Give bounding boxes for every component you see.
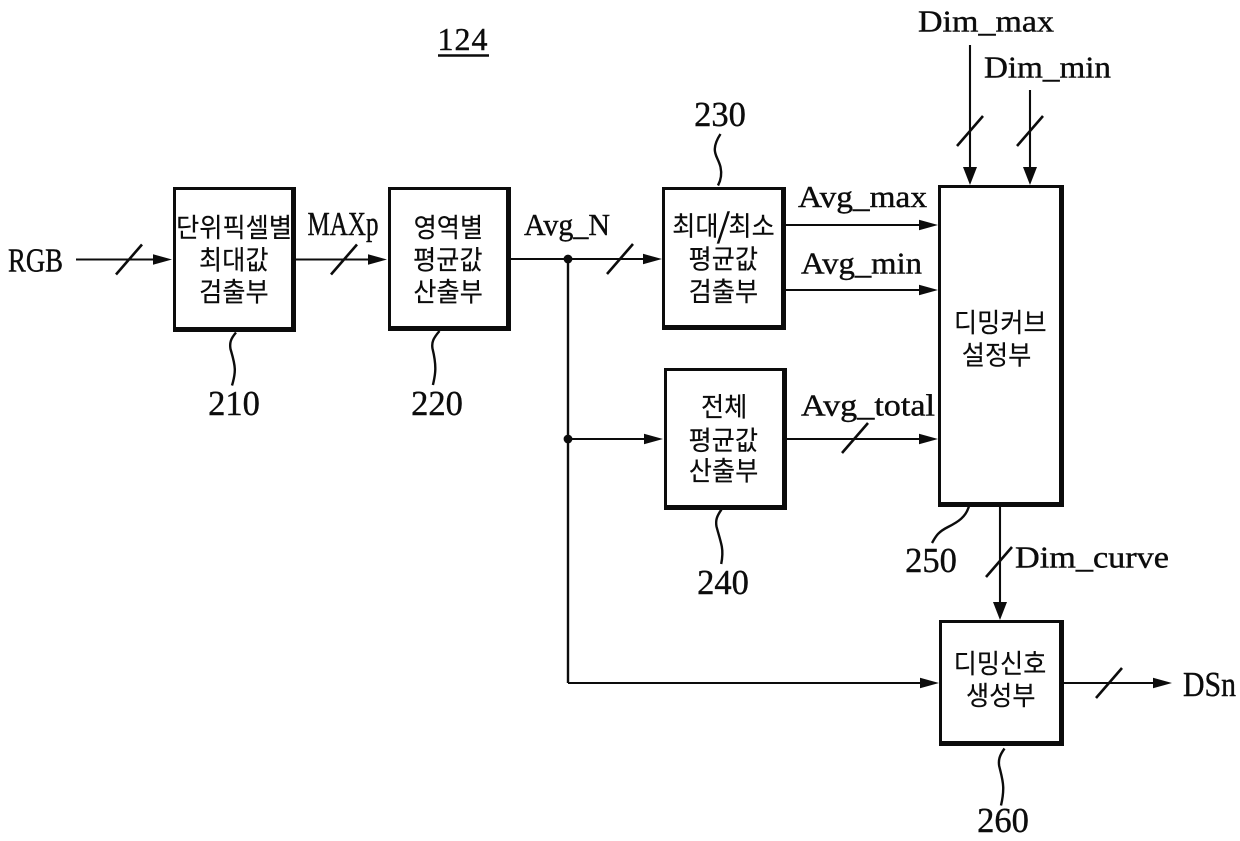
wire branch to block 260 xyxy=(568,678,939,688)
wire Avg_total block240 to block250 with bus slash xyxy=(786,423,938,453)
reference numeral 250 xyxy=(905,542,957,580)
wire RGB to block 210 with bus slash xyxy=(76,245,172,275)
leader squiggle for 260 xyxy=(999,749,1005,806)
reference numeral 240 xyxy=(697,564,749,602)
node Dim_max label xyxy=(918,4,1055,39)
svg-text:240: 240 xyxy=(697,564,749,602)
leader squiggle for 230 xyxy=(715,134,721,186)
svg-text:230: 230 xyxy=(694,96,746,134)
svg-text:Avg_min: Avg_min xyxy=(801,246,923,281)
svg-text:Dim_min: Dim_min xyxy=(984,50,1112,85)
node Avg_total label xyxy=(801,388,935,423)
leader squiggle for 240 xyxy=(716,510,722,565)
svg-text:MAXp: MAXp xyxy=(308,206,379,243)
svg-text:Avg_N: Avg_N xyxy=(524,207,610,242)
svg-text:Avg_max: Avg_max xyxy=(798,179,928,214)
reference numeral 230 xyxy=(694,96,746,134)
reference numeral 260 xyxy=(977,802,1029,840)
wire block220 to block230 with junction and bus slash xyxy=(511,244,662,274)
junction dot at branch to block 240 xyxy=(564,435,573,444)
reference numeral 220 xyxy=(411,385,463,423)
wire branch to block 240 xyxy=(568,434,663,444)
reference numeral 210 xyxy=(208,385,260,423)
leader squiggle for 220 xyxy=(432,331,439,385)
svg-text:Dim_max: Dim_max xyxy=(918,4,1055,39)
svg-text:250: 250 xyxy=(905,542,957,580)
node Avg_N label xyxy=(524,207,610,242)
figure number 124 xyxy=(438,21,490,57)
node RGB input label xyxy=(8,243,63,280)
leader squiggle for 210 xyxy=(230,333,236,386)
wire Dim_max input into block250 with bus slash xyxy=(957,45,983,185)
wire Avg_max block230 to block250 xyxy=(786,220,938,230)
node Dim_curve label xyxy=(1015,540,1169,575)
svg-text:124: 124 xyxy=(438,21,489,57)
svg-text:220: 220 xyxy=(411,385,463,423)
svg-text:260: 260 xyxy=(977,802,1029,840)
block 250: dimming curve setting unit xyxy=(938,185,1064,507)
block 230: max/min average detector xyxy=(662,187,786,330)
wire Dim_curve block250 to block260 with bus slash xyxy=(986,507,1012,620)
block 240: total average calculator xyxy=(664,368,787,510)
block 210: per-pixel maximum detector xyxy=(173,187,296,332)
junction dot at Avg_N branch xyxy=(564,255,573,264)
wire vertical branch of Avg_N down xyxy=(567,259,569,683)
svg-text:Dim_curve: Dim_curve xyxy=(1015,540,1169,575)
node MAXp label xyxy=(308,206,379,243)
leader squiggle for 250 xyxy=(932,506,969,543)
node DSn label xyxy=(1183,665,1236,704)
node Avg_max label xyxy=(798,179,928,214)
block 220: per-region average calculator xyxy=(388,187,511,331)
svg-text:RGB: RGB xyxy=(8,243,63,280)
node Dim_min label xyxy=(984,50,1112,85)
svg-text:DSn: DSn xyxy=(1183,665,1236,704)
wire Dim_min input into block250 with bus slash xyxy=(1017,90,1043,185)
wire Avg_min block230 to block250 xyxy=(786,285,938,295)
wire block210 to block220 with bus slash xyxy=(296,245,387,275)
svg-text:Avg_total: Avg_total xyxy=(801,388,935,423)
svg-text:210: 210 xyxy=(208,385,260,423)
wire DSn output from block260 with bus slash xyxy=(1064,668,1172,698)
block 260: dimming signal generator xyxy=(939,620,1064,746)
node Avg_min label xyxy=(801,246,923,281)
